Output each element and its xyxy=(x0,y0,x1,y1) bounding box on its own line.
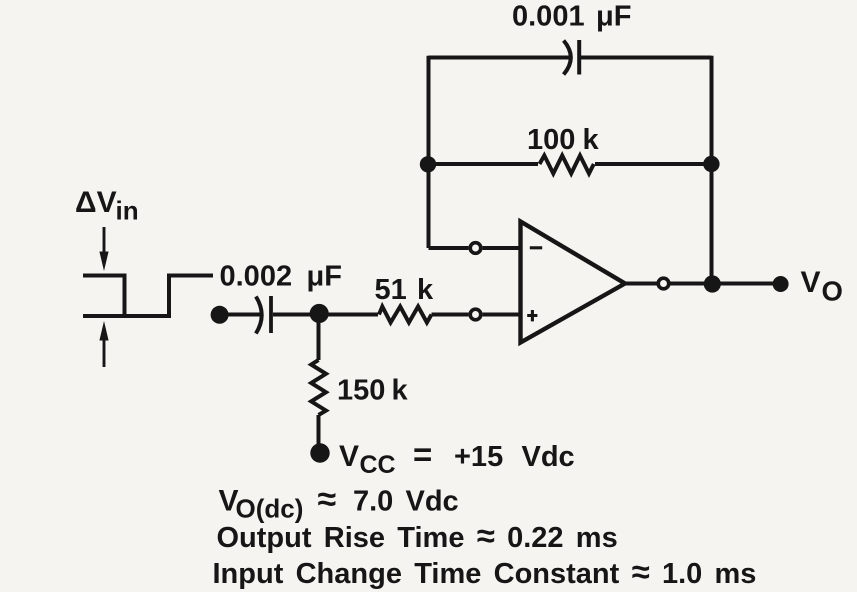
svg-text:Vdc: Vdc xyxy=(406,486,459,518)
svg-text:in: in xyxy=(116,196,139,226)
svg-text:Output Rise Time ≈ 0.22 ms: Output Rise Time ≈ 0.22 ms xyxy=(217,517,618,554)
svg-text:100: 100 xyxy=(527,124,575,156)
svg-text:0.001: 0.001 xyxy=(512,0,585,32)
svg-text:150: 150 xyxy=(337,375,385,407)
svg-text:k: k xyxy=(392,375,409,407)
svg-text:O(dc): O(dc) xyxy=(236,494,304,524)
svg-text:0.002: 0.002 xyxy=(220,261,293,293)
svg-text:=: = xyxy=(413,436,432,473)
svg-text:ΔV: ΔV xyxy=(75,186,117,219)
svg-text:Vdc: Vdc xyxy=(522,441,575,473)
svg-text:CC: CC xyxy=(360,451,396,479)
svg-text:μF: μF xyxy=(307,261,342,293)
svg-text:V: V xyxy=(801,266,821,299)
svg-text:k: k xyxy=(583,124,600,156)
svg-text:≈: ≈ xyxy=(318,481,337,519)
svg-text:μF: μF xyxy=(596,0,631,32)
svg-text:O: O xyxy=(822,276,843,307)
svg-text:k: k xyxy=(417,274,434,306)
svg-text:51: 51 xyxy=(375,274,407,306)
svg-text:+15: +15 xyxy=(454,441,503,473)
svg-text:V: V xyxy=(339,440,359,473)
svg-text:Input Change Time Constant ≈ 1: Input Change Time Constant ≈ 1.0 ms xyxy=(213,553,757,590)
svg-text:7.0: 7.0 xyxy=(353,486,393,518)
